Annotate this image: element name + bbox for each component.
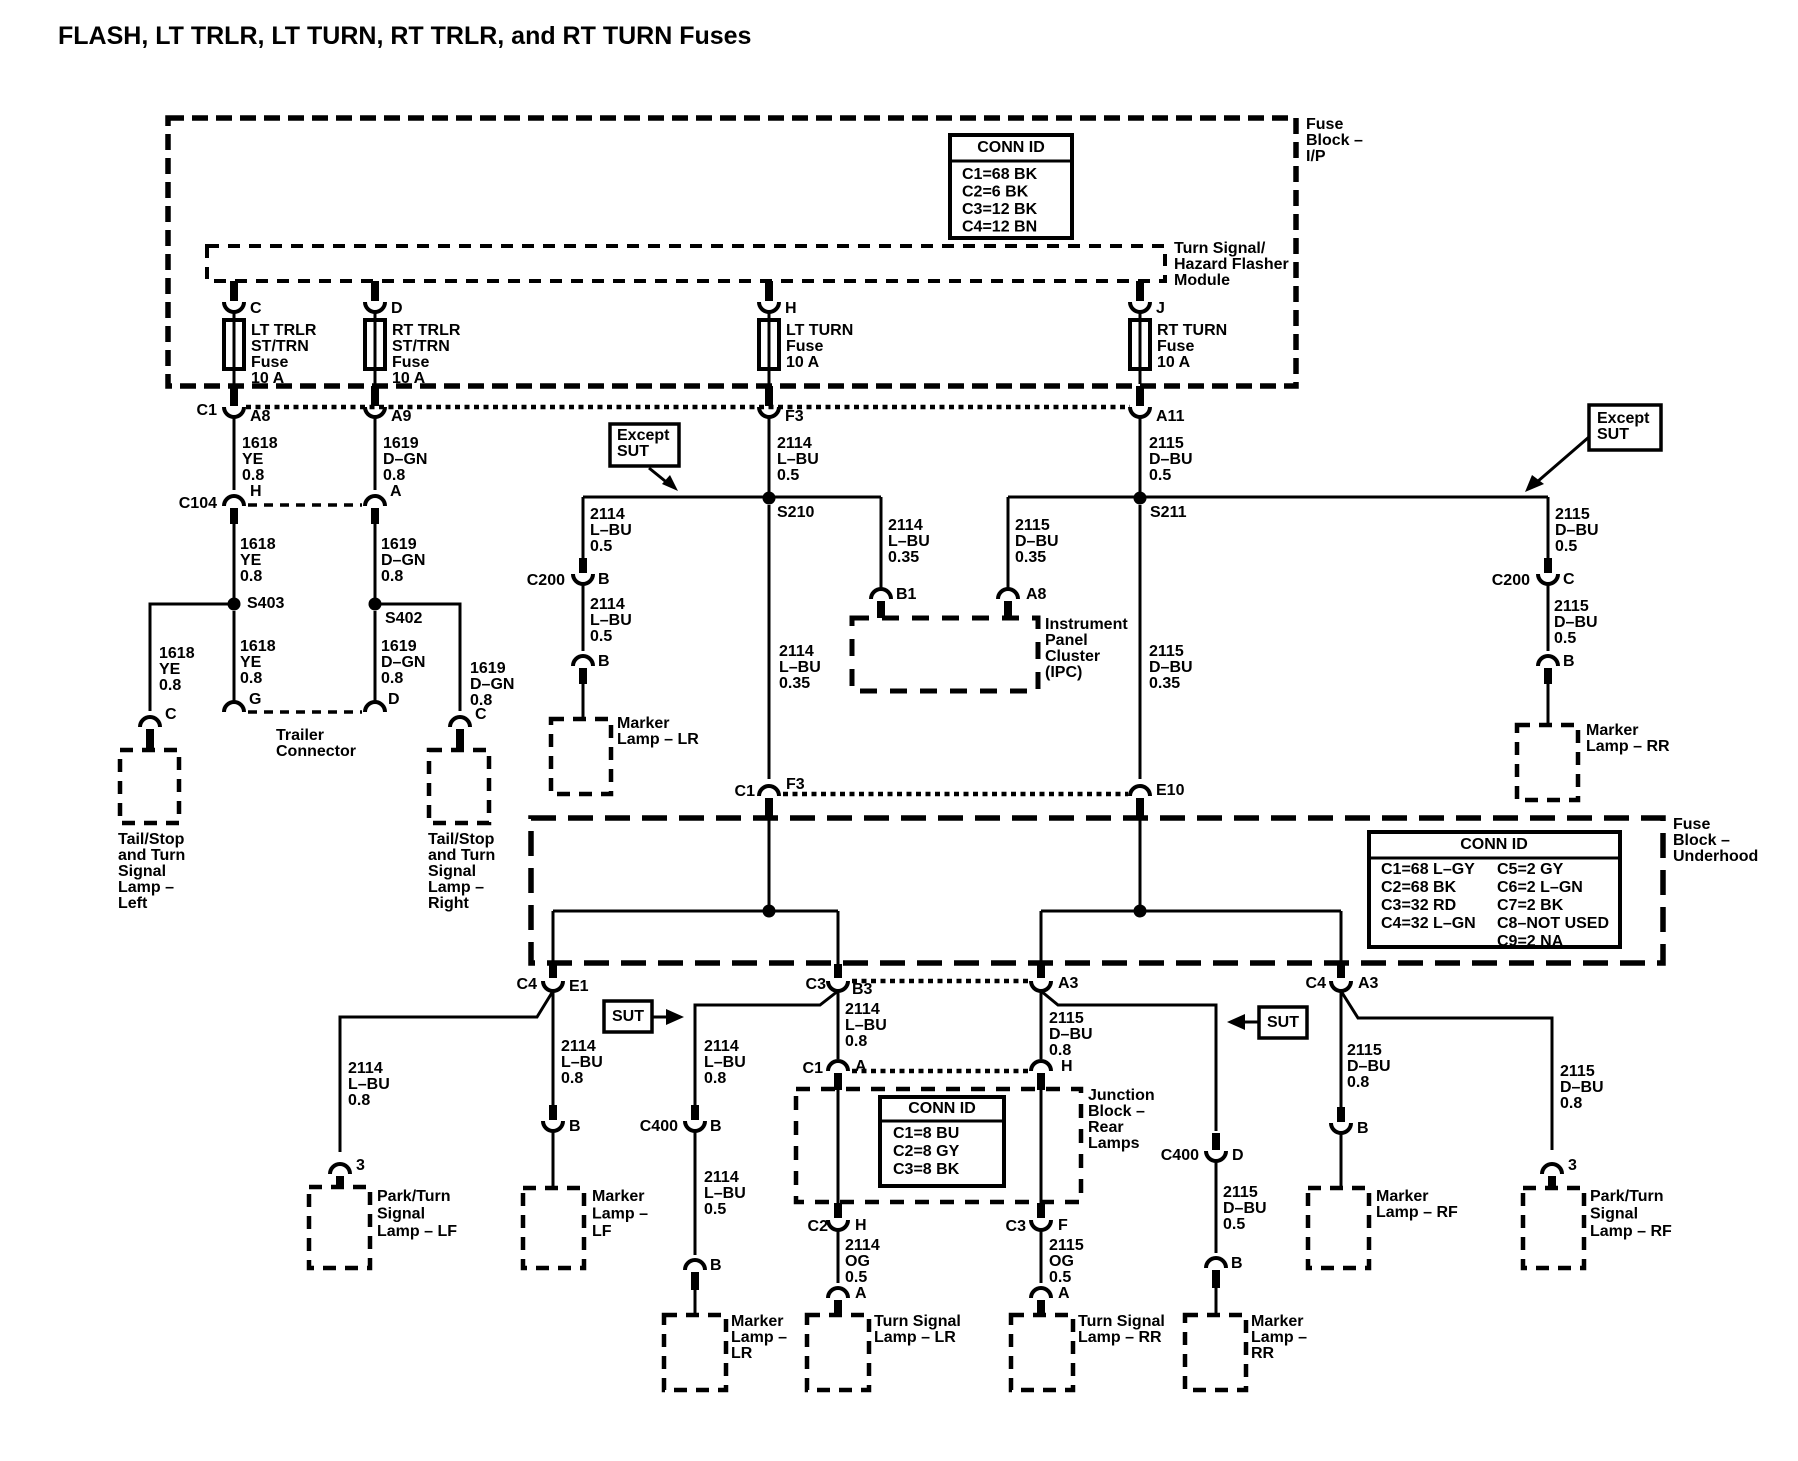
stub below B1: [877, 601, 885, 618]
instrument panel cluster label: [1045, 616, 1128, 681]
wire label 2115 D-BU 0.35 (to A8): [1015, 517, 1059, 566]
svg-text:L–BU: L–BU: [590, 612, 632, 629]
wire drop to C4 A3 right: [1340, 911, 1343, 964]
svg-text:C1=8 BU: C1=8 BU: [893, 1125, 959, 1142]
wire into marker lamp RR (upper): [1547, 684, 1550, 725]
park turn signal lamp LF box: [309, 1187, 370, 1268]
svg-text:Right: Right: [428, 895, 470, 912]
wire A3 down to H: [1040, 991, 1043, 1059]
wire label 2115 D-BU 0.5 (below A11): [1149, 435, 1193, 484]
svg-text:OG: OG: [1049, 1253, 1074, 1270]
stub below E10: [1136, 798, 1144, 816]
svg-text:A: A: [855, 1285, 867, 1302]
tail/stop lamp right label: [428, 831, 495, 912]
svg-text:SUT: SUT: [612, 1008, 644, 1025]
svg-text:Except: Except: [617, 427, 670, 444]
svg-text:H: H: [250, 483, 262, 500]
marker lamp LF box: [523, 1188, 584, 1268]
svg-text:Cluster: Cluster: [1045, 648, 1100, 665]
connector cavity B at marker RF: [1331, 1120, 1369, 1137]
svg-text:C4=32 L–GN: C4=32 L–GN: [1381, 915, 1476, 932]
svg-text:2114: 2114: [779, 643, 814, 660]
svg-text:D: D: [391, 300, 403, 317]
wire label 1618 YE 0.8 (to trailer G): [240, 638, 276, 687]
wire C104 A to splice S402: [374, 524, 377, 604]
stub below B marker RR: [1544, 668, 1552, 684]
svg-text:C104: C104: [179, 495, 217, 512]
svg-text:and Turn: and Turn: [118, 847, 185, 864]
svg-text:Rear: Rear: [1088, 1119, 1124, 1136]
wire label 2115 D-BU 0.8 (A3 diag): [1049, 1010, 1093, 1059]
svg-text:0.5: 0.5: [777, 467, 799, 484]
svg-text:A3: A3: [1058, 975, 1079, 992]
wire label 2115 OG 0.5: [1049, 1237, 1084, 1286]
stub below B marker RR lower: [1212, 1270, 1220, 1288]
wire B to marker lamp LF: [552, 1131, 555, 1189]
svg-text:C400: C400: [640, 1118, 678, 1135]
stub above B marker RF: [1337, 1107, 1345, 1122]
wire label 2114 L-BU 0.35 (to B1): [888, 517, 930, 566]
svg-text:1618: 1618: [242, 435, 278, 452]
connector cavity D at flasher module: [365, 300, 403, 317]
wire label 1619 D-GN 0.8 (upper): [383, 435, 427, 484]
wire label 1618 YE 0.8 (upper left): [242, 435, 278, 484]
svg-text:1618: 1618: [240, 536, 276, 553]
svg-text:2115: 2115: [1347, 1042, 1382, 1059]
svg-text:D–BU: D–BU: [1347, 1058, 1391, 1075]
stub above B marker LF: [549, 1105, 557, 1120]
svg-text:L–BU: L–BU: [777, 451, 819, 468]
wire A11 down to S211: [1139, 415, 1142, 497]
wire label 1618 YE 0.8 (branch left): [159, 645, 195, 694]
wire label 2114 L-BU 0.8 (SUT drop): [704, 1038, 746, 1087]
svg-text:S210: S210: [777, 504, 814, 521]
wire label 2115 D-BU 0.8 (marker RF): [1347, 1042, 1391, 1091]
wire C200 C down to marker lamp RR feed: [1547, 584, 1550, 651]
svg-text:B: B: [710, 1118, 722, 1135]
svg-text:C400: C400: [1161, 1147, 1199, 1164]
svg-text:L–BU: L–BU: [704, 1185, 746, 1202]
svg-text:Lamp –: Lamp –: [118, 879, 174, 896]
svg-text:0.8: 0.8: [1560, 1095, 1582, 1112]
wire C3 B3 down to C1 A: [837, 991, 840, 1059]
marker lamp RR box (upper): [1517, 725, 1578, 800]
connector C1 cavity A at junction block: [803, 1058, 867, 1077]
svg-text:C1: C1: [735, 783, 756, 800]
module output stub pin J: [1136, 281, 1144, 301]
fuse block I/P exit stub F3: [765, 386, 773, 406]
wire A8 drop from S211 rail: [1007, 497, 1010, 589]
tail/stop and turn signal lamp right box: [429, 750, 489, 823]
svg-text:2114: 2114: [845, 1001, 880, 1018]
svg-text:2115: 2115: [1015, 517, 1050, 534]
svg-text:Fuse: Fuse: [251, 354, 288, 371]
svg-text:Fuse: Fuse: [1157, 338, 1194, 355]
stub above C3 F: [1037, 1203, 1045, 1218]
svg-text:H: H: [785, 300, 797, 317]
wire label 2114 L-BU 0.5 (below C200 B): [590, 596, 632, 645]
svg-text:C3=8 BK: C3=8 BK: [893, 1161, 960, 1178]
connector C3 cavity B3: [806, 976, 873, 998]
wire label 2114 L-BU 0.8 (B3 down): [845, 1001, 887, 1050]
svg-text:Lamps: Lamps: [1088, 1135, 1140, 1152]
svg-text:B1: B1: [896, 586, 917, 603]
turn signal hazard flasher module dashed outline: [207, 246, 1165, 281]
svg-text:10 A: 10 A: [1157, 354, 1191, 371]
wire left drop to C200 B: [582, 497, 585, 558]
svg-text:Turn Signal: Turn Signal: [1078, 1313, 1165, 1330]
svg-text:0.8: 0.8: [381, 568, 403, 585]
svg-text:C3: C3: [806, 976, 827, 993]
svg-text:2114: 2114: [888, 517, 923, 534]
wire label 2115 D-BU 0.5 (below C200 C): [1554, 598, 1598, 647]
svg-text:YE: YE: [240, 654, 262, 671]
svg-text:2114: 2114: [590, 596, 625, 613]
svg-text:3: 3: [1568, 1157, 1577, 1174]
underhood right rail: [1041, 910, 1341, 913]
svg-text:FLASH, LT TRLR, LT TURN, RT TR: FLASH, LT TRLR, LT TURN, RT TRLR, and RT…: [58, 22, 751, 50]
wire label 1619 D-GN 0.8 (to trailer D): [381, 638, 425, 687]
stub below underhood exit A3 left: [1037, 964, 1045, 978]
park turn signal lamp LF label: [377, 1188, 457, 1240]
stub into turn signal LR: [834, 1300, 842, 1315]
connector cavity B at marker LF: [543, 1118, 581, 1135]
wire H through junction block: [1040, 1090, 1043, 1203]
wire S210 to IPC B1: [880, 497, 883, 589]
svg-text:Fuse: Fuse: [392, 354, 429, 371]
wire label 2114 L-BU 0.8 (marker LF): [561, 1038, 603, 1087]
svg-text:Signal: Signal: [1590, 1206, 1638, 1223]
wire label 2115 D-BU 0.5 (below C400 D): [1223, 1184, 1267, 1233]
except SUT callout box (left): [610, 424, 679, 466]
svg-text:2114: 2114: [590, 506, 625, 523]
connector C104 cavity A: [365, 483, 402, 506]
svg-text:Except: Except: [1597, 410, 1650, 427]
connector C400 cavity D: [1161, 1147, 1244, 1164]
svg-text:Park/Turn: Park/Turn: [1590, 1188, 1664, 1205]
svg-text:ST/TRN: ST/TRN: [392, 338, 450, 355]
stub below underhood exit C4 A3: [1337, 964, 1345, 978]
wire into marker lamp LR (upper): [582, 684, 585, 719]
stub into park turn RF: [1548, 1176, 1556, 1189]
svg-text:C6=2 L–GN: C6=2 L–GN: [1497, 879, 1583, 896]
svg-text:0.8: 0.8: [704, 1070, 726, 1087]
svg-text:D–BU: D–BU: [1560, 1079, 1604, 1096]
svg-text:C3=32 RD: C3=32 RD: [1381, 897, 1456, 914]
svg-text:0.5: 0.5: [1049, 1269, 1071, 1286]
wire label 1618 YE 0.8 (mid left): [240, 536, 276, 585]
svg-text:Fuse: Fuse: [1673, 816, 1710, 833]
svg-text:J: J: [1156, 300, 1165, 317]
wire into marker lamp LR (lower): [694, 1290, 697, 1315]
marker lamp LF label: [592, 1188, 648, 1240]
svg-text:D: D: [388, 691, 400, 708]
connector C4 cavity A3 (right): [1306, 975, 1379, 992]
svg-text:B: B: [1357, 1120, 1369, 1137]
svg-text:C2=6 BK: C2=6 BK: [962, 184, 1029, 201]
svg-text:Lamp – LF: Lamp – LF: [377, 1223, 457, 1240]
wire C2 H down to turn signal LR: [837, 1230, 840, 1283]
svg-text:C1=68 BK: C1=68 BK: [962, 166, 1038, 183]
svg-text:D–GN: D–GN: [381, 552, 425, 569]
connector cavity C at tail lamp left: [140, 706, 177, 727]
fuse block I/P exit stub A11: [1136, 386, 1144, 406]
svg-text:Connector: Connector: [276, 743, 356, 760]
SUT arrow (right): [1227, 1014, 1259, 1030]
svg-text:L–BU: L–BU: [590, 522, 632, 539]
stub above C2 H: [834, 1203, 842, 1218]
svg-text:YE: YE: [240, 552, 262, 569]
wire C1 A through junction block: [837, 1090, 840, 1203]
svg-text:2114: 2114: [348, 1060, 383, 1077]
CONN ID table - fuse block I/P: [950, 135, 1072, 238]
interface dotted line B3 to A3: [852, 979, 1028, 984]
marker lamp RR label (upper): [1586, 722, 1670, 755]
wire E10 into underhood junction: [1139, 816, 1142, 911]
wire label 1619 D-GN 0.8 (branch right): [470, 660, 514, 709]
stub below underhood exit C4 E1: [549, 964, 557, 978]
svg-text:F: F: [1058, 1217, 1068, 1234]
svg-text:10 A: 10 A: [251, 370, 285, 387]
wire label 2114 L-BU 0.35 (to C1 F3): [779, 643, 821, 692]
connector cavity B above marker lamp RR: [1538, 653, 1575, 670]
fuse block underhood dashed outline: [531, 818, 1663, 963]
stub below H: [1037, 1073, 1045, 1090]
svg-text:C: C: [250, 300, 262, 317]
marker lamp LR box (lower): [664, 1315, 726, 1390]
svg-text:0.5: 0.5: [1223, 1216, 1245, 1233]
stub below B marker LR lower: [691, 1272, 699, 1290]
wire label 2114 L-BU 0.5 (left drop): [590, 506, 632, 555]
connector C400 cavity B: [640, 1118, 722, 1135]
svg-text:2114: 2114: [777, 435, 812, 452]
svg-text:YE: YE: [242, 451, 264, 468]
connector cavity B at marker RR (lower): [1206, 1255, 1243, 1272]
wire C4 A3 diagonal to park turn RF: [1341, 991, 1552, 1150]
svg-text:H: H: [855, 1217, 867, 1234]
svg-text:C9=2 NA: C9=2 NA: [1497, 933, 1564, 950]
svg-text:C7=2 BK: C7=2 BK: [1497, 897, 1564, 914]
svg-text:C4=12 BN: C4=12 BN: [962, 219, 1037, 236]
svg-text:B3: B3: [852, 981, 873, 998]
svg-text:ST/TRN: ST/TRN: [251, 338, 309, 355]
svg-text:L–BU: L–BU: [561, 1054, 603, 1071]
connector cavity A at turn signal LR: [828, 1285, 867, 1302]
svg-text:LT TURN: LT TURN: [786, 322, 853, 339]
wire C3 B3 diagonal to SUT drop: [695, 991, 838, 1105]
svg-text:2115: 2115: [1554, 598, 1589, 615]
svg-text:C5=2 GY: C5=2 GY: [1497, 861, 1564, 878]
svg-text:0.8: 0.8: [240, 568, 262, 585]
svg-text:0.8: 0.8: [159, 677, 181, 694]
svg-text:1619: 1619: [470, 660, 506, 677]
stub above C200 C: [1544, 558, 1552, 573]
connector C104 cavity H: [179, 483, 262, 512]
wire C4 E1 diagonal to park turn LF: [340, 991, 553, 1152]
fuse block I/P exit stub A8: [230, 386, 238, 406]
stub below C1 F3: [765, 798, 773, 816]
svg-text:A3: A3: [1358, 975, 1379, 992]
svg-text:S403: S403: [247, 595, 284, 612]
connector C1 cavity A8: [197, 402, 271, 425]
svg-text:0.8: 0.8: [242, 467, 264, 484]
fuse label RT TURN: [1157, 322, 1227, 371]
marker lamp LR label (upper): [617, 715, 699, 748]
svg-text:0.35: 0.35: [1149, 675, 1180, 692]
svg-text:0.8: 0.8: [381, 670, 403, 687]
svg-text:0.5: 0.5: [590, 538, 612, 555]
svg-text:H: H: [1061, 1058, 1073, 1075]
svg-text:D–BU: D–BU: [1149, 659, 1193, 676]
svg-text:L–BU: L–BU: [845, 1017, 887, 1034]
wire into marker lamp RR (lower): [1215, 1288, 1218, 1315]
wire C4 A3 down to marker RF: [1340, 991, 1343, 1107]
svg-text:Marker: Marker: [731, 1313, 783, 1330]
svg-text:A: A: [390, 483, 402, 500]
svg-text:S211: S211: [1150, 504, 1187, 521]
connector cavity B above marker lamp LR: [573, 653, 610, 670]
svg-text:Marker: Marker: [592, 1188, 644, 1205]
turn signal lamp LR box: [807, 1315, 869, 1390]
connector C104 stub below H: [230, 508, 238, 524]
connector cavity A at turn signal RR: [1031, 1285, 1070, 1302]
svg-text:C1=68 L–GY: C1=68 L–GY: [1381, 861, 1475, 878]
connector cavity C at tail lamp right: [450, 706, 487, 727]
svg-text:E10: E10: [1156, 782, 1185, 799]
svg-text:A: A: [1058, 1285, 1070, 1302]
svg-text:D–BU: D–BU: [1049, 1026, 1093, 1043]
stub into tail lamp left: [146, 729, 154, 748]
trailer connector interface dashed line: [248, 710, 362, 714]
tail/stop lamp left label: [118, 831, 185, 912]
wire label 2114 OG 0.5: [845, 1237, 880, 1286]
svg-text:C1: C1: [803, 1060, 824, 1077]
stub above C400 D: [1212, 1133, 1220, 1150]
svg-text:1619: 1619: [381, 638, 417, 655]
svg-text:A11: A11: [1156, 408, 1185, 425]
splice S403: [228, 595, 285, 612]
svg-text:Block –: Block –: [1088, 1103, 1145, 1120]
junction node right: [1134, 905, 1147, 918]
svg-text:B: B: [569, 1118, 581, 1135]
module output stub pin D: [371, 281, 379, 301]
svg-text:YE: YE: [159, 661, 181, 678]
fuse label LT TRLR: [251, 322, 317, 387]
wire drop to C4 E1: [552, 911, 555, 964]
turn signal lamp RR label: [1078, 1313, 1165, 1346]
svg-text:C2=8 GY: C2=8 GY: [893, 1143, 960, 1160]
junction node left: [763, 905, 776, 918]
svg-text:C200: C200: [1492, 572, 1530, 589]
IPC connector cavity A8: [998, 586, 1047, 603]
svg-text:Tail/Stop: Tail/Stop: [118, 831, 185, 848]
wire S210 down to C1 F3: [768, 505, 771, 779]
svg-text:Marker: Marker: [617, 715, 669, 732]
svg-text:L–BU: L–BU: [348, 1076, 390, 1093]
svg-text:0.35: 0.35: [1015, 549, 1046, 566]
svg-text:0.35: 0.35: [888, 549, 919, 566]
svg-text:0.8: 0.8: [845, 1033, 867, 1050]
svg-text:SUT: SUT: [1597, 426, 1629, 443]
marker lamp RR box (lower): [1185, 1315, 1246, 1390]
splice S402: [369, 598, 423, 628]
svg-text:C8–NOT USED: C8–NOT USED: [1497, 915, 1609, 932]
wire S402 down to trailer connector D: [374, 611, 377, 702]
svg-text:Fuse: Fuse: [1306, 116, 1343, 133]
wire S211 down to E10: [1139, 505, 1142, 779]
connector cavity H at flasher module: [759, 300, 797, 317]
stub above C200 B: [579, 558, 587, 573]
svg-text:B: B: [598, 653, 610, 670]
except SUT callout box (right): [1589, 405, 1661, 450]
splice S211: [1134, 492, 1187, 522]
svg-text:1619: 1619: [383, 435, 419, 452]
svg-text:D: D: [1232, 1147, 1244, 1164]
fuse label LT TURN: [786, 322, 853, 371]
svg-text:CONN ID: CONN ID: [908, 1100, 976, 1117]
svg-text:3: 3: [356, 1157, 365, 1174]
svg-text:1619: 1619: [381, 536, 417, 553]
except SUT arrow (right): [1525, 437, 1589, 492]
tail/stop and turn signal lamp left box: [120, 750, 179, 823]
svg-text:Signal: Signal: [428, 863, 476, 880]
stub into turn signal RR: [1037, 1300, 1045, 1315]
svg-text:A9: A9: [391, 408, 412, 425]
park turn signal lamp RF label: [1590, 1188, 1672, 1240]
module output stub pin C: [230, 281, 238, 301]
svg-text:D–BU: D–BU: [1555, 522, 1599, 539]
connector cavity E10 at underhood block: [1130, 782, 1185, 799]
svg-text:Instrument: Instrument: [1045, 616, 1128, 633]
svg-text:Lamp –: Lamp –: [428, 879, 484, 896]
wire label 2115 D-BU 0.35 (to E10): [1149, 643, 1193, 692]
svg-text:L–BU: L–BU: [888, 533, 930, 550]
svg-text:1618: 1618: [240, 638, 276, 655]
stub below A8 IPC: [1004, 601, 1012, 618]
svg-text:0.35: 0.35: [779, 675, 810, 692]
fuse RT TRLR D: [365, 313, 385, 384]
connector interface dotted line below fuse block I/P: [246, 405, 1130, 410]
svg-text:D–GN: D–GN: [383, 451, 427, 468]
wire S403 down to trailer connector G: [233, 611, 236, 702]
svg-text:C4: C4: [517, 976, 538, 993]
connector cavity H at junction block: [1031, 1058, 1073, 1075]
connector C104 stub below A: [371, 508, 379, 524]
svg-text:Signal: Signal: [377, 1206, 425, 1223]
svg-text:CONN ID: CONN ID: [1460, 836, 1528, 853]
svg-text:Lamp –: Lamp –: [1251, 1329, 1307, 1346]
svg-text:Fuse: Fuse: [786, 338, 823, 355]
svg-text:0.5: 0.5: [1555, 538, 1577, 555]
underhood left rail: [553, 910, 838, 913]
svg-text:Signal: Signal: [118, 863, 166, 880]
svg-text:Lamp – RR: Lamp – RR: [1586, 738, 1670, 755]
svg-text:Trailer: Trailer: [276, 727, 324, 744]
wire C1 F3 into underhood junction: [768, 816, 771, 911]
underhood connector interface dotted line: [783, 792, 1128, 797]
fuse label RT TRLR: [392, 322, 461, 387]
fuse block I/P dashed outline: [168, 118, 1296, 386]
svg-text:0.8: 0.8: [1049, 1042, 1071, 1059]
SUT callout box (right): [1259, 1007, 1307, 1038]
svg-text:C4: C4: [1306, 975, 1327, 992]
wire C400 D down to marker RR: [1215, 1161, 1218, 1253]
connector C2 cavity H: [808, 1217, 867, 1235]
svg-text:Marker: Marker: [1376, 1188, 1428, 1205]
connector cavity A3 (left): [1031, 975, 1079, 992]
instrument panel cluster dashed box: [852, 618, 1038, 691]
trailer connector label: [276, 727, 356, 760]
